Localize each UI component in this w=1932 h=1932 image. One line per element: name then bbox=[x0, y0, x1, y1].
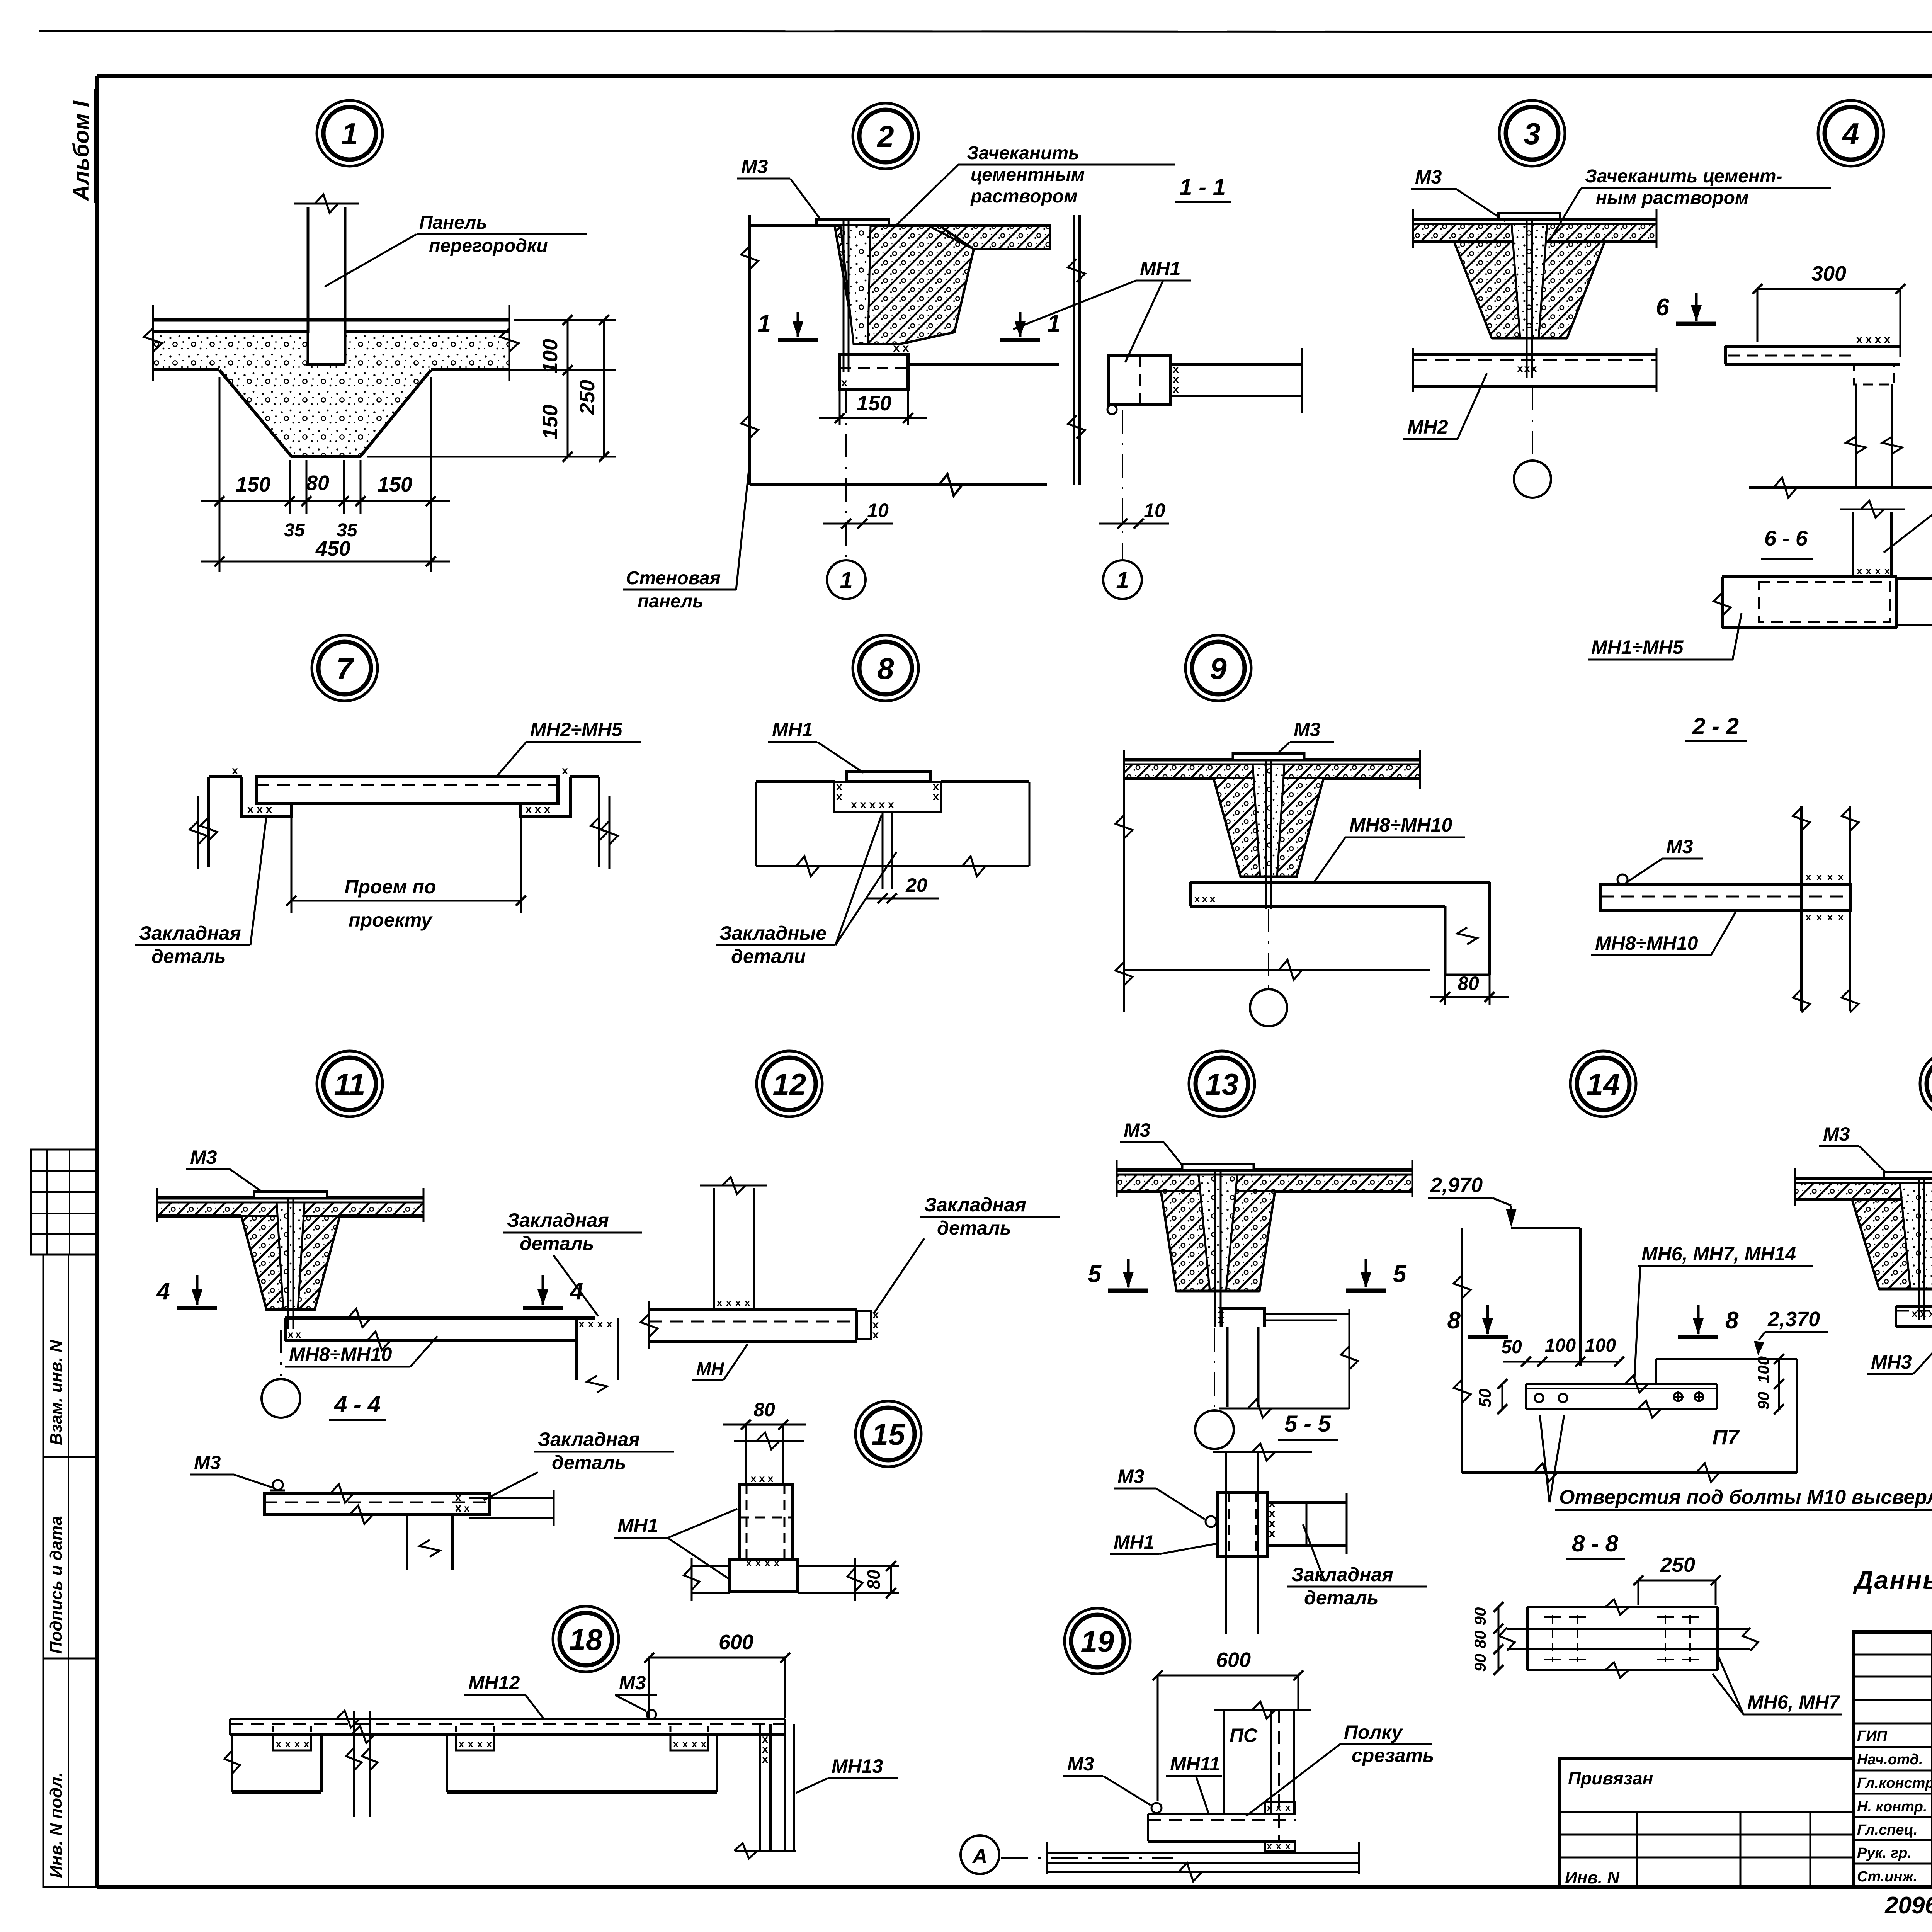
detail 13 marker bbox=[1189, 1051, 1255, 1117]
svg-text:П7: П7 bbox=[1713, 1426, 1740, 1449]
svg-text:x: x bbox=[1194, 893, 1200, 905]
svg-text:МН8÷МН10: МН8÷МН10 bbox=[289, 1344, 392, 1365]
detail 13 section mark 5 left bbox=[1088, 1259, 1148, 1291]
detail 19 marker bbox=[1065, 1608, 1130, 1674]
svg-text:x: x bbox=[903, 342, 909, 354]
margin box Взам.инв.N bbox=[43, 1255, 96, 1457]
detail 19 label М3 bbox=[1063, 1753, 1151, 1805]
svg-text:x: x bbox=[1285, 1841, 1291, 1852]
detail 18 walls below bbox=[224, 1711, 717, 1817]
svg-text:x: x bbox=[836, 790, 843, 803]
section title 2-2 bbox=[1685, 713, 1747, 741]
svg-text:Альбом I: Альбом I bbox=[69, 100, 94, 202]
svg-text:50: 50 bbox=[1501, 1337, 1522, 1357]
detail 1 floor slab with key bbox=[144, 305, 519, 457]
svg-text:x: x bbox=[735, 1297, 741, 1308]
detail 8 anchor plate bbox=[756, 772, 1029, 889]
svg-text:МН2÷МН5: МН2÷МН5 bbox=[530, 719, 623, 740]
svg-text:Стеновая: Стеновая bbox=[626, 568, 721, 588]
svg-text:5 - 5: 5 - 5 bbox=[1284, 1411, 1332, 1437]
svg-text:ГИП: ГИП bbox=[1857, 1728, 1888, 1744]
detail 2 dimension 150 bbox=[819, 389, 927, 425]
detail 19 base line А bbox=[961, 1835, 1359, 1881]
svg-text:x: x bbox=[1838, 871, 1844, 883]
svg-text:деталь: деталь bbox=[552, 1452, 626, 1473]
svg-text:x: x bbox=[588, 1318, 594, 1330]
svg-text:МН1÷МН5: МН1÷МН5 bbox=[1591, 636, 1684, 658]
svg-text:100: 100 bbox=[1754, 1356, 1772, 1383]
detail 16 slab joint bbox=[1795, 1168, 1932, 1320]
svg-text:2 - 2: 2 - 2 bbox=[1692, 713, 1739, 739]
detail 18 anchor pockets bbox=[273, 1726, 708, 1750]
detail 18 label МН13 bbox=[796, 1755, 898, 1793]
svg-text:x: x bbox=[285, 1738, 291, 1750]
svg-text:x: x bbox=[1866, 333, 1872, 346]
svg-text:250: 250 bbox=[1660, 1553, 1695, 1577]
svg-text:x: x bbox=[1285, 1803, 1291, 1813]
detail 2 ref circle right bbox=[1099, 410, 1169, 599]
svg-text:x: x bbox=[1929, 1308, 1932, 1319]
detail 2 plan wall and bracket bbox=[1068, 215, 1302, 485]
detail 13 section mark 5 right bbox=[1346, 1259, 1407, 1291]
svg-text:Гл.констр.: Гл.констр. bbox=[1857, 1775, 1932, 1791]
svg-text:7: 7 bbox=[336, 651, 354, 685]
detail 11 label М3 bbox=[186, 1146, 267, 1196]
svg-text:Н. контр.: Н. контр. bbox=[1857, 1799, 1927, 1815]
detail 11 section mark 4 left bbox=[156, 1275, 217, 1308]
section title 8-8 bbox=[1566, 1531, 1625, 1559]
svg-text:Инв. N: Инв. N bbox=[1565, 1868, 1620, 1887]
svg-text:x: x bbox=[276, 1738, 282, 1750]
svg-text:x: x bbox=[872, 1328, 879, 1341]
detail 4 marker bbox=[1818, 100, 1884, 166]
svg-text:x: x bbox=[468, 1738, 474, 1750]
section 8-8 dimension 250 bbox=[1633, 1553, 1721, 1605]
detail 3 slab joint bbox=[1408, 209, 1656, 378]
detail 11 shelf bbox=[285, 1309, 618, 1393]
detail 16 marker bbox=[1920, 1051, 1932, 1117]
detail 11 slab joint bbox=[157, 1188, 423, 1329]
svg-text:x: x bbox=[751, 1473, 757, 1484]
album label bbox=[69, 89, 95, 203]
svg-text:x: x bbox=[257, 803, 263, 816]
detail 19 panel ПС bbox=[1214, 1702, 1311, 1841]
detail 3 floor bbox=[1413, 348, 1656, 392]
svg-text:80: 80 bbox=[864, 1570, 884, 1590]
detail 16 label МН3 bbox=[1867, 1319, 1932, 1374]
svg-text:Закладные: Закладные bbox=[719, 922, 827, 944]
detail 14 section mark 8 right bbox=[1678, 1305, 1739, 1337]
detail 9 marker bbox=[1185, 635, 1251, 701]
section 2-2 label М3 bbox=[1628, 836, 1703, 882]
detail 8 label МН1 bbox=[768, 719, 864, 773]
detail 12 label МН bbox=[692, 1344, 748, 1380]
svg-text:Панель: Панель bbox=[419, 213, 487, 233]
svg-text:x: x bbox=[266, 803, 272, 816]
svg-text:МН8÷МН10: МН8÷МН10 bbox=[1595, 932, 1698, 954]
svg-text:Закладная: Закладная bbox=[538, 1429, 640, 1450]
section 4-4 label Закладная деталь bbox=[484, 1429, 674, 1500]
svg-text:2,970: 2,970 bbox=[1430, 1173, 1483, 1197]
svg-text:панель: панель bbox=[638, 591, 704, 612]
svg-text:Гл.спец.: Гл.спец. bbox=[1857, 1822, 1918, 1838]
detail 19 dimension 600 bbox=[1153, 1648, 1303, 1801]
svg-text:x: x bbox=[692, 1738, 697, 1750]
detail 16 label М3 bbox=[1819, 1123, 1886, 1173]
detail 12 label Закладная деталь bbox=[874, 1194, 1060, 1313]
section 5-5 label М3 bbox=[1114, 1466, 1205, 1519]
svg-text:x: x bbox=[841, 376, 848, 389]
svg-text:x: x bbox=[759, 1473, 765, 1484]
svg-text:450: 450 bbox=[315, 537, 350, 560]
svg-text:x: x bbox=[1912, 1308, 1918, 1319]
svg-text:М3: М3 bbox=[1294, 719, 1321, 740]
svg-text:x: x bbox=[768, 1473, 774, 1484]
svg-text:М3: М3 bbox=[190, 1146, 217, 1168]
section title 6-6 bbox=[1761, 526, 1813, 559]
svg-text:600: 600 bbox=[719, 1631, 753, 1654]
svg-text:x: x bbox=[1517, 362, 1523, 374]
svg-text:МН3: МН3 bbox=[1871, 1351, 1912, 1373]
svg-text:x: x bbox=[1276, 1841, 1281, 1852]
detail 2 base and ref circle left bbox=[750, 390, 1047, 599]
svg-text:8: 8 bbox=[1447, 1307, 1461, 1334]
svg-text:x: x bbox=[1210, 893, 1216, 905]
detail 1 bottom dimensions bbox=[201, 377, 450, 572]
section 6-6 beam bbox=[1714, 501, 1932, 634]
detail 11 label Закладная деталь bbox=[503, 1209, 642, 1316]
svg-text:МН8÷МН10: МН8÷МН10 bbox=[1349, 814, 1452, 836]
svg-text:8 - 8: 8 - 8 bbox=[1572, 1531, 1619, 1556]
svg-text:x: x bbox=[717, 1297, 723, 1308]
svg-text:x: x bbox=[1827, 871, 1833, 883]
section 8-8 plates bbox=[1499, 1599, 1758, 1678]
svg-text:МН13: МН13 bbox=[832, 1755, 883, 1777]
section 2-2 strap and wall bbox=[1600, 806, 1859, 1012]
svg-text:80: 80 bbox=[1471, 1631, 1489, 1649]
section 5-5 label Закладная деталь bbox=[1287, 1524, 1427, 1609]
svg-text:Зачеканить: Зачеканить bbox=[967, 143, 1080, 163]
svg-text:МН: МН bbox=[696, 1359, 724, 1379]
pril table bbox=[1559, 1758, 1854, 1887]
svg-text:19: 19 bbox=[1081, 1624, 1114, 1658]
detail 13 bracket and panel bbox=[1218, 1303, 1358, 1418]
svg-text:100: 100 bbox=[1585, 1335, 1616, 1356]
svg-text:90: 90 bbox=[1471, 1607, 1489, 1626]
svg-text:Проем по: Проем по bbox=[345, 876, 436, 898]
detail 2 label Зачеканить bbox=[893, 143, 1175, 229]
svg-text:МН1: МН1 bbox=[1114, 1531, 1155, 1553]
svg-text:x: x bbox=[288, 1328, 294, 1340]
detail 9 label МН8-МН10 bbox=[1313, 814, 1465, 884]
svg-text:Данный лист смотреть вместе с: Данный лист смотреть вместе с листами 15… bbox=[1853, 1566, 1932, 1594]
svg-text:x: x bbox=[597, 1318, 603, 1330]
svg-text:x: x bbox=[607, 1318, 612, 1330]
svg-text:x: x bbox=[1816, 871, 1822, 883]
svg-text:деталь: деталь bbox=[937, 1217, 1011, 1239]
detail 15 base plate bbox=[684, 1558, 899, 1601]
svg-text:3: 3 bbox=[1524, 117, 1540, 151]
section 4-4 strap bbox=[264, 1480, 554, 1570]
svg-text:x: x bbox=[673, 1738, 679, 1750]
svg-text:100: 100 bbox=[539, 339, 562, 374]
svg-text:x: x bbox=[851, 798, 857, 811]
svg-text:x: x bbox=[1838, 911, 1844, 923]
svg-text:x: x bbox=[701, 1738, 707, 1750]
section 5-5 label МН1 bbox=[1110, 1531, 1216, 1554]
detail 14 elevation 2370 bbox=[1754, 1308, 1828, 1355]
detail 2 label МН1 bbox=[1013, 258, 1191, 362]
section 5-5 panel bbox=[1213, 1444, 1312, 1634]
svg-text:Подпись и дата: Подпись и дата bbox=[47, 1516, 66, 1654]
svg-text:13: 13 bbox=[1205, 1067, 1239, 1101]
detail 2 label М3 bbox=[737, 156, 821, 220]
detail 18 marker bbox=[553, 1606, 619, 1672]
detail 9 shelf with angle bbox=[1190, 882, 1490, 975]
title block names bbox=[1857, 1727, 1932, 1885]
section title 1-1 bbox=[1175, 174, 1231, 202]
svg-text:6: 6 bbox=[1656, 294, 1670, 321]
detail 13 label М3 bbox=[1120, 1119, 1185, 1169]
detail 15 label МН1 bbox=[614, 1509, 737, 1578]
detail 14 strap МН6 bbox=[1526, 1376, 1717, 1418]
svg-text:деталь: деталь bbox=[520, 1233, 594, 1254]
svg-text:x: x bbox=[296, 1328, 301, 1340]
detail 12 panel on slab bbox=[641, 1177, 879, 1349]
svg-text:МН6, МН7, МН14: МН6, МН7, МН14 bbox=[1641, 1243, 1796, 1265]
detail 11 marker bbox=[317, 1051, 383, 1117]
svg-text:М3: М3 bbox=[1666, 836, 1693, 857]
svg-text:МН2: МН2 bbox=[1407, 416, 1448, 438]
svg-text:10: 10 bbox=[1144, 500, 1165, 521]
svg-text:150: 150 bbox=[857, 392, 891, 415]
svg-text:5: 5 bbox=[1088, 1261, 1102, 1287]
svg-text:1: 1 bbox=[840, 567, 852, 593]
svg-text:15: 15 bbox=[872, 1417, 906, 1451]
svg-text:МН11: МН11 bbox=[1170, 1753, 1220, 1775]
svg-text:10: 10 bbox=[867, 500, 889, 521]
svg-text:Ст.инж.: Ст.инж. bbox=[1857, 1869, 1917, 1885]
detail 3 ref circle bbox=[1514, 387, 1551, 498]
svg-text:35: 35 bbox=[284, 520, 305, 541]
svg-text:x: x bbox=[1884, 565, 1890, 577]
svg-text:90: 90 bbox=[1754, 1392, 1772, 1410]
svg-text:300: 300 bbox=[1811, 262, 1846, 285]
section 2-2 label МН8-МН10 bbox=[1591, 912, 1736, 955]
detail 8 label Закладные детали bbox=[716, 815, 896, 967]
svg-text:x: x bbox=[1531, 362, 1537, 374]
svg-text:x: x bbox=[1173, 383, 1179, 396]
detail 13 ref circle bbox=[1195, 1328, 1234, 1449]
svg-text:x: x bbox=[562, 764, 568, 777]
svg-text:80: 80 bbox=[1458, 973, 1479, 994]
svg-text:x: x bbox=[1202, 893, 1208, 905]
svg-text:Привязан: Привязан bbox=[1568, 1768, 1653, 1788]
svg-text:4 - 4: 4 - 4 bbox=[334, 1391, 381, 1417]
detail 7 label Закладная деталь bbox=[135, 815, 267, 967]
margin box Инв.N подл. bbox=[43, 1658, 96, 1887]
svg-text:М3: М3 bbox=[1415, 166, 1442, 188]
svg-text:МН1: МН1 bbox=[1140, 258, 1181, 279]
svg-text:6 - 6: 6 - 6 bbox=[1764, 526, 1808, 550]
svg-text:x: x bbox=[464, 1502, 470, 1514]
svg-text:80: 80 bbox=[753, 1399, 775, 1420]
detail 2 section mark 1 left bbox=[758, 310, 818, 340]
svg-text:x: x bbox=[1524, 362, 1530, 374]
detail 15 plate МН1 bbox=[739, 1484, 792, 1568]
detail 15 dim 80 right bbox=[847, 1558, 896, 1601]
detail 14 section mark 8 left bbox=[1447, 1305, 1508, 1337]
svg-text:x: x bbox=[459, 1738, 464, 1750]
section title 5-5 bbox=[1278, 1411, 1338, 1440]
svg-text:цементным: цементным bbox=[971, 165, 1085, 185]
detail 4 dimension 300 bbox=[1752, 262, 1905, 357]
svg-text:600: 600 bbox=[1216, 1648, 1251, 1672]
detail 9 slab joint bbox=[1124, 753, 1420, 909]
detail 18 label МН12 bbox=[464, 1672, 544, 1719]
detail 15 dimension 80 top bbox=[0, 0, 0, 0]
svg-text:250: 250 bbox=[576, 380, 599, 415]
detail 7 lintel bbox=[200, 764, 608, 867]
svg-text:Отверстия под болты М10 высвер: Отверстия под болты М10 высверлить по ме… bbox=[1559, 1486, 1932, 1509]
svg-text:x: x bbox=[1875, 333, 1881, 346]
section 6-6 label МН1-МН5 bbox=[1588, 613, 1742, 660]
detail 2 wall and joint bbox=[741, 215, 1050, 485]
svg-text:8: 8 bbox=[1725, 1307, 1739, 1334]
svg-text:Закладная: Закладная bbox=[1291, 1564, 1393, 1585]
detail 14 marker bbox=[1570, 1051, 1636, 1117]
svg-text:90: 90 bbox=[1471, 1654, 1489, 1672]
svg-text:1: 1 bbox=[1116, 567, 1129, 593]
svg-text:МН1: МН1 bbox=[772, 719, 813, 740]
detail 19 strap МН11 bbox=[1148, 1802, 1296, 1852]
svg-text:5: 5 bbox=[1393, 1261, 1407, 1287]
detail 3 marker bbox=[1499, 100, 1565, 166]
detail 3 label Зачеканить цементным bbox=[1550, 166, 1831, 240]
svg-text:20967-01: 20967-01 bbox=[1884, 1892, 1932, 1919]
detail 14 dims 50 100 100 bbox=[1501, 1335, 1624, 1367]
detail 1 panel bbox=[294, 194, 359, 364]
svg-text:x: x bbox=[1857, 565, 1862, 577]
svg-text:1: 1 bbox=[341, 117, 358, 151]
detail 9 bottom line bbox=[1124, 960, 1430, 980]
svg-text:МН6, МН7: МН6, МН7 bbox=[1747, 1691, 1840, 1713]
svg-text:x: x bbox=[860, 798, 867, 811]
detail 4 section mark 6 left bbox=[1656, 293, 1716, 324]
svg-text:x: x bbox=[1884, 333, 1891, 346]
detail 14 elevation lines bbox=[1454, 1228, 1580, 1473]
svg-text:Инв. N подл.: Инв. N подл. bbox=[47, 1772, 66, 1878]
detail 18 bracket МН13 bbox=[734, 1719, 796, 1859]
section 5-5 plate МН1 bbox=[1206, 1492, 1276, 1557]
detail 1 right dimensions bbox=[367, 315, 616, 462]
svg-text:x: x bbox=[1827, 911, 1833, 923]
detail 13 slab joint bbox=[1115, 1160, 1413, 1327]
svg-text:Полку: Полку bbox=[1344, 1721, 1403, 1743]
detail 14 note bolts bbox=[1540, 1415, 1932, 1557]
margin mini table bbox=[31, 1150, 96, 1255]
svg-text:Закладная: Закладная bbox=[139, 922, 241, 944]
section 8-8 side dims bbox=[1471, 1602, 1503, 1675]
detail 15 top dim 80 bbox=[723, 1399, 806, 1430]
detail 18 dimension 600 bbox=[644, 1631, 790, 1718]
svg-text:М3: М3 bbox=[194, 1452, 221, 1473]
svg-text:x: x bbox=[1269, 1527, 1276, 1540]
svg-text:8: 8 bbox=[877, 651, 894, 685]
svg-text:x: x bbox=[879, 798, 885, 811]
svg-text:100: 100 bbox=[1545, 1335, 1576, 1356]
detail 7 label МН2-МН5 bbox=[496, 719, 641, 777]
svg-text:x: x bbox=[1875, 565, 1881, 577]
detail 18 label М3 bbox=[615, 1672, 657, 1711]
svg-text:x: x bbox=[486, 1738, 492, 1750]
svg-text:А: А bbox=[972, 1845, 988, 1868]
svg-text:Нач.отд.: Нач.отд. bbox=[1857, 1752, 1923, 1768]
svg-text:x: x bbox=[1806, 871, 1811, 883]
svg-text:80: 80 bbox=[306, 471, 329, 495]
detail 14 panel П7 bbox=[1462, 1359, 1797, 1482]
detail 8 marker bbox=[853, 635, 918, 701]
svg-text:перегородки: перегородки bbox=[429, 236, 548, 256]
svg-text:2: 2 bbox=[876, 119, 894, 153]
svg-text:деталь: деталь bbox=[1304, 1587, 1378, 1609]
svg-text:x: x bbox=[745, 1297, 750, 1308]
svg-text:x: x bbox=[869, 798, 876, 811]
detail 14 side dims bbox=[1476, 1354, 1785, 1414]
svg-text:МН1: МН1 bbox=[617, 1515, 658, 1536]
svg-text:4: 4 bbox=[156, 1278, 170, 1305]
svg-text:x: x bbox=[247, 803, 254, 816]
section title 4-4 bbox=[329, 1391, 386, 1420]
detail 19 label Полку срезать bbox=[1246, 1721, 1434, 1816]
svg-text:4: 4 bbox=[1842, 117, 1859, 151]
svg-text:x: x bbox=[1267, 1841, 1272, 1852]
svg-text:Зачеканить цемент-: Зачеканить цемент- bbox=[1585, 166, 1782, 187]
svg-text:x: x bbox=[762, 1753, 769, 1765]
detail 4 beam and post bbox=[1725, 333, 1932, 498]
svg-text:x: x bbox=[893, 342, 900, 354]
svg-text:x: x bbox=[1816, 911, 1822, 923]
detail 15 marker bbox=[855, 1401, 921, 1467]
svg-text:150: 150 bbox=[378, 473, 412, 496]
svg-text:50: 50 bbox=[1476, 1388, 1495, 1407]
section 5-5 beam bbox=[1267, 1493, 1347, 1554]
detail 16 strap МН3 bbox=[1896, 1298, 1932, 1335]
svg-text:x: x bbox=[933, 790, 939, 803]
svg-text:x: x bbox=[294, 1738, 300, 1750]
section 4-4 label М3 bbox=[190, 1452, 273, 1488]
svg-text:20: 20 bbox=[905, 874, 927, 896]
doc code bbox=[1884, 1892, 1932, 1927]
detail 7 opening dimension bbox=[190, 796, 618, 931]
svg-text:11: 11 bbox=[334, 1067, 366, 1101]
section 8-8 label МН6 МН7 bbox=[1713, 1655, 1842, 1714]
detail 7 marker bbox=[312, 635, 378, 701]
svg-text:x: x bbox=[1276, 1803, 1281, 1813]
svg-text:1: 1 bbox=[758, 310, 771, 337]
svg-text:x: x bbox=[477, 1738, 483, 1750]
svg-text:x: x bbox=[1806, 911, 1811, 923]
svg-text:x: x bbox=[1267, 1803, 1272, 1813]
svg-text:Закладная: Закладная bbox=[924, 1194, 1026, 1216]
detail 1 marker bbox=[317, 100, 383, 166]
svg-text:М3: М3 bbox=[1117, 1466, 1145, 1487]
detail 14 elevation 2970 bbox=[1428, 1173, 1517, 1227]
detail 18 strap МН12 bbox=[230, 1710, 785, 1743]
svg-text:x: x bbox=[526, 803, 532, 816]
svg-text:12: 12 bbox=[773, 1067, 806, 1101]
detail 15 upper panel bbox=[734, 1425, 804, 1484]
